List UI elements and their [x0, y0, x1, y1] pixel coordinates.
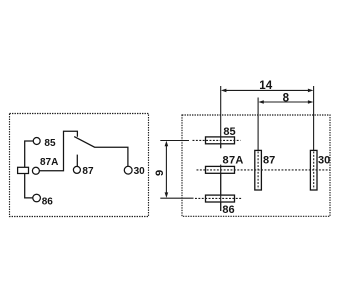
svg-text:87A: 87A — [40, 157, 58, 168]
svg-text:87: 87 — [263, 154, 275, 166]
svg-text:85: 85 — [44, 138, 56, 149]
svg-text:86: 86 — [222, 204, 234, 216]
svg-text:87A: 87A — [223, 154, 244, 166]
svg-text:30: 30 — [318, 154, 330, 166]
svg-text:30: 30 — [134, 166, 146, 177]
svg-text:87: 87 — [82, 166, 94, 177]
svg-text:85: 85 — [223, 126, 235, 138]
svg-text:9: 9 — [154, 170, 166, 176]
svg-text:86: 86 — [42, 197, 54, 208]
svg-text:14: 14 — [259, 79, 272, 92]
svg-text:8: 8 — [283, 91, 290, 104]
